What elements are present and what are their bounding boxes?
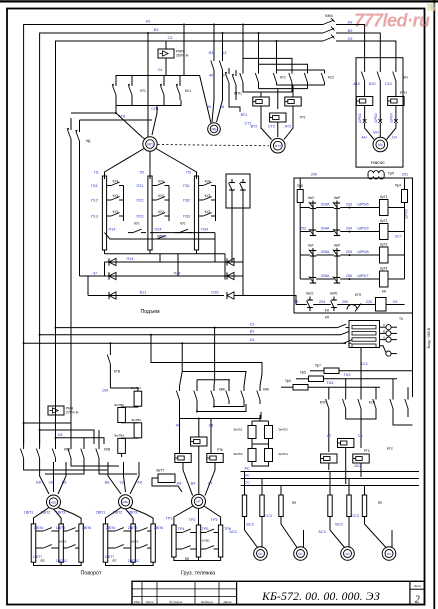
svg-text:ВС: ВС xyxy=(244,474,249,478)
svg-text:В3: В3 xyxy=(209,51,214,55)
svg-text:С8: С8 xyxy=(58,433,63,437)
svg-text:КУ3: КУ3 xyxy=(205,194,211,198)
svg-text:Пр8: Пр8 xyxy=(297,184,303,188)
svg-text:В3: В3 xyxy=(250,330,255,334)
svg-text:С10: С10 xyxy=(385,82,392,86)
svg-text:КуГ3: КуГ3 xyxy=(380,243,387,247)
contact КУ3 П3 xyxy=(199,199,203,201)
svg-text:А7: А7 xyxy=(327,434,332,438)
brake res drop 5 xyxy=(348,479,350,496)
contact MV a xyxy=(213,57,215,61)
wire KT1 top bus xyxy=(116,76,211,124)
svg-text:Пр6: Пр6 xyxy=(285,379,291,383)
wire MT3 drop C xyxy=(276,41,278,70)
svg-text:РТК: РТК xyxy=(217,448,223,452)
connector RTN-A xyxy=(356,97,372,106)
wire grid right2 xyxy=(105,253,226,255)
transformer TrP xyxy=(368,171,384,174)
wire MT3 conv xyxy=(261,106,272,140)
wire conn drop xyxy=(198,419,200,438)
wire left verticals to row xyxy=(23,423,25,444)
svg-text:ВТ2: ВТ2 xyxy=(251,125,258,129)
connector RTS a xyxy=(321,454,337,463)
pin circle C xyxy=(380,339,387,341)
contact KSS b xyxy=(392,394,394,400)
contact KNK c xyxy=(259,386,261,391)
wire br bus1 xyxy=(241,471,419,473)
brake res drop 3 xyxy=(280,486,282,496)
svg-text:ТР5: ТР5 xyxy=(202,527,209,531)
diode D3 xyxy=(109,292,116,299)
svg-text:П34: П34 xyxy=(201,228,208,232)
svg-text:Поворот: Поворот xyxy=(80,571,102,577)
wire KTV feed xyxy=(109,343,111,350)
mech link dashed xyxy=(158,145,270,146)
svg-text:МС: МС xyxy=(298,552,302,556)
svg-text:МС: МС xyxy=(387,552,391,556)
svg-text:АС: АС xyxy=(244,467,249,471)
wire C9 xyxy=(336,41,396,62)
wire drop A to bus xyxy=(183,25,185,76)
svg-text:МТ: МТ xyxy=(196,500,200,504)
wire B3 mid xyxy=(40,334,340,336)
svg-text:Лист: Лист xyxy=(145,600,154,604)
coil EmTT xyxy=(158,474,175,483)
brake resistor 4 xyxy=(328,495,332,517)
wire MV tap B xyxy=(222,33,224,57)
wire KTP1 down xyxy=(229,88,240,112)
wire MP rotor P1 xyxy=(105,149,145,180)
connector trolley a xyxy=(175,454,191,463)
wire to plug A xyxy=(364,90,366,97)
pin circle A xyxy=(380,326,387,328)
contact KPS b xyxy=(345,394,347,400)
svg-text:204: 204 xyxy=(319,300,325,304)
svg-text:С4: С4 xyxy=(158,68,163,72)
svg-text:КБ-572. 00. 00. 000. ЭЗ: КБ-572. 00. 00. 000. ЭЗ xyxy=(261,590,380,603)
wire plugA down xyxy=(364,106,366,122)
svg-text:КУ3: КУ3 xyxy=(158,194,164,198)
wire EmTT xyxy=(152,478,182,492)
svg-text:М4: М4 xyxy=(378,143,383,147)
wire to plug B xyxy=(379,90,381,121)
contact MV b xyxy=(222,57,224,61)
wire MP rotor P2 xyxy=(149,152,151,180)
relay RMP xyxy=(165,41,167,49)
contact KP b xyxy=(339,334,342,336)
svg-text:ВС3: ВС3 xyxy=(246,523,253,527)
svg-text:П21: П21 xyxy=(137,184,144,188)
svg-text:ЭмТК1: ЭмТК1 xyxy=(233,428,243,432)
wire MV2 conv xyxy=(108,462,121,494)
contact trolley r2 xyxy=(201,532,206,534)
contact KTP1 a xyxy=(228,68,230,74)
svg-text:КвП: КвП xyxy=(334,244,341,248)
svg-text:КСС: КСС xyxy=(369,401,376,405)
wire tap3 xyxy=(56,438,105,444)
wire trolley buses xyxy=(151,335,262,386)
contact KN pole C10 xyxy=(395,62,397,72)
svg-text:Вход ~380 В: Вход ~380 В xyxy=(427,327,431,348)
svg-text:П24: П24 xyxy=(174,271,181,275)
contact KNK b xyxy=(243,386,245,391)
svg-text:КТ1: КТ1 xyxy=(140,89,146,93)
svg-text:С8: С8 xyxy=(120,481,125,485)
svg-text:МТ3: МТ3 xyxy=(275,144,281,148)
fuse Pr4 xyxy=(402,190,408,203)
svg-text:Изм: Изм xyxy=(133,600,141,604)
contact КУ2 П3 xyxy=(199,215,203,217)
svg-text:ВС3: ВС3 xyxy=(335,523,342,527)
svg-text:А3: А3 xyxy=(222,51,227,55)
wire MT rotor xyxy=(174,506,193,525)
breaker VM4 pole C xyxy=(323,37,334,42)
motor MT xyxy=(192,494,206,508)
wire MT conv b xyxy=(198,446,200,494)
wire TK3 xyxy=(361,371,413,397)
wire C3 mid xyxy=(56,327,335,329)
contact KN pole B10 xyxy=(379,62,381,72)
svg-text:2ВП1: 2ВП1 xyxy=(96,511,106,515)
relay block KvT/KvP -> KuG3/KuG4 xyxy=(300,254,310,256)
wire KPS out xyxy=(328,413,330,452)
svg-text:205: 205 xyxy=(346,250,352,254)
svg-text:R9: R9 xyxy=(292,501,296,505)
wire slew cross xyxy=(24,462,108,470)
svg-text:ТрП: ТрП xyxy=(388,171,395,175)
scan artifact xyxy=(427,3,436,11)
coil EmTV2 xyxy=(118,408,126,423)
contact KC2 b xyxy=(307,70,309,74)
svg-text:2: 2 xyxy=(415,595,420,606)
svg-text:КвС1: КвС1 xyxy=(306,292,314,296)
svg-text:ТР2: ТР2 xyxy=(189,518,196,522)
relay RMV xyxy=(48,406,64,415)
svg-text:П35: П35 xyxy=(160,235,167,239)
wire diode line3 xyxy=(88,295,224,297)
motor M4 xyxy=(373,137,388,152)
svg-text:КУ1: КУ1 xyxy=(134,222,140,226)
wire diode left xyxy=(87,276,89,296)
svg-text:КУ2: КУ2 xyxy=(205,210,211,214)
contact КУ3 П1 xyxy=(107,199,111,201)
svg-text:ШР5/8: ШР5/8 xyxy=(357,250,368,254)
contact KU1 c xyxy=(152,238,157,240)
wire tap1 xyxy=(24,422,71,424)
svg-text:СС: СС xyxy=(244,481,250,485)
svg-text:А10: А10 xyxy=(353,82,360,86)
svg-text:АС2: АС2 xyxy=(354,464,361,468)
svg-text:1С3: 1С3 xyxy=(361,362,368,366)
svg-text:В4: В4 xyxy=(191,481,196,485)
wire trolley res bottom xyxy=(174,557,221,561)
svg-text:40: 40 xyxy=(209,74,213,78)
pin x B xyxy=(379,119,383,123)
contact KN pole A10 xyxy=(364,62,366,72)
pin x C xyxy=(394,119,398,123)
svg-text:КПВ: КПВ xyxy=(64,447,70,451)
svg-text:ЭмТВ2: ЭмТВ2 xyxy=(114,403,124,407)
coil EmTK3 xyxy=(265,426,273,439)
contact slew 5 xyxy=(83,444,85,449)
svg-text:МС: МС xyxy=(258,552,262,556)
svg-text:ЭмТК2: ЭмТК2 xyxy=(233,452,243,456)
wire bus C3 xyxy=(56,41,324,444)
svg-text:ШР5/5: ШР5/5 xyxy=(405,209,409,219)
motor MV1 xyxy=(47,495,61,509)
contact trolley r1 xyxy=(176,532,182,534)
svg-text:СН: СН xyxy=(392,136,398,140)
relay KTN row xyxy=(296,304,307,306)
contact KSS c xyxy=(407,394,409,400)
wire MT3 drop A xyxy=(242,25,244,71)
connector ST2 xyxy=(270,113,286,122)
svg-text:П33: П33 xyxy=(183,215,190,219)
svg-text:АН: АН xyxy=(361,136,367,140)
contact КУ4 П3 xyxy=(199,185,203,187)
svg-text:R9: R9 xyxy=(378,501,382,505)
svg-text:КвП1: КвП1 xyxy=(330,292,338,296)
wire MT conv xyxy=(183,463,193,496)
svg-text:ВМ4: ВМ4 xyxy=(325,14,332,18)
contact slew 2 xyxy=(39,444,41,449)
brake resistor 5 xyxy=(347,495,351,517)
wire panel right links xyxy=(404,208,406,280)
svg-text:ШР5/6: ШР5/6 xyxy=(357,203,368,207)
svg-text:П32: П32 xyxy=(183,199,190,203)
svg-text:КвР: КвР xyxy=(334,196,341,200)
svg-text:А9: А9 xyxy=(294,300,299,304)
svg-text:1ВП1: 1ВП1 xyxy=(24,511,34,515)
svg-text:СТ2: СТ2 xyxy=(268,125,275,129)
wire MT3 drop B xyxy=(258,33,260,70)
svg-text:КУ4: КУ4 xyxy=(158,180,164,184)
svg-text:В10: В10 xyxy=(369,82,376,86)
svg-text:КУВ2: КУВ2 xyxy=(131,540,139,544)
connector trolley top xyxy=(191,437,207,446)
svg-text:П3: П3 xyxy=(186,171,191,175)
svg-text:КП: КП xyxy=(325,315,330,319)
wire plugC down xyxy=(395,106,397,122)
title block grid xyxy=(132,581,425,604)
svg-text:ЭмТК3: ЭмТК3 xyxy=(278,428,288,432)
contact KNK a xyxy=(228,386,230,391)
svg-text:2ВП6: 2ВП6 xyxy=(154,526,164,530)
trolley resistor 1 xyxy=(172,525,176,557)
coil EmTV3 xyxy=(134,423,142,438)
breaker VM4 pole B xyxy=(323,29,334,34)
svg-text:С9: С9 xyxy=(358,434,363,438)
svg-text:ТР1: ТР1 xyxy=(166,516,173,520)
svg-text:СС3: СС3 xyxy=(351,514,359,518)
wire SP1 xyxy=(152,106,157,136)
svg-text:С8: С8 xyxy=(49,481,54,485)
svg-text:КУ4: КУ4 xyxy=(205,180,211,184)
fuse Pr5 xyxy=(309,376,324,382)
svg-text:С9: С9 xyxy=(393,300,398,304)
svg-text:ВТ1: ВТ1 xyxy=(241,113,248,117)
page edge top xyxy=(0,0,438,2)
contact КУ2 П2 xyxy=(152,215,156,217)
svg-text:СП1: СП1 xyxy=(151,107,159,111)
contact КУ4 П2 xyxy=(152,185,156,187)
svg-text:206: 206 xyxy=(346,274,352,278)
svg-text:Пр5: Пр5 xyxy=(300,370,306,374)
wire KD top2 xyxy=(80,119,153,121)
svg-text:2ВП4: 2ВП4 xyxy=(106,526,116,530)
svg-text:КУ4: КУ4 xyxy=(113,180,119,184)
panel box xyxy=(294,178,413,313)
brake resistor 2 xyxy=(260,495,264,517)
wire brake links xyxy=(245,517,258,548)
svg-text:1ВП5: 1ВП5 xyxy=(56,526,66,530)
svg-text:КуГ2: КуГ2 xyxy=(380,219,387,223)
coil EmTK1 xyxy=(248,426,256,439)
contact KVK c xyxy=(213,386,215,391)
wire grid bus1 xyxy=(105,233,216,239)
fuse Pr6 xyxy=(293,385,308,391)
page edge right xyxy=(433,0,435,609)
connector RTS mid xyxy=(338,439,354,448)
svg-text:ШР5/7: ШР5/7 xyxy=(357,274,368,278)
svg-text:203А: 203А xyxy=(321,203,330,207)
svg-text:204: 204 xyxy=(346,227,352,231)
svg-text:КУВ1: КУВ1 xyxy=(202,539,210,543)
svg-text:1ВП6: 1ВП6 xyxy=(82,526,92,530)
svg-text:Насос: Насос xyxy=(371,160,385,166)
contact KP c xyxy=(344,342,347,344)
svg-text:ШР6/4: ШР6/4 xyxy=(390,113,394,123)
wire tap2 xyxy=(40,430,94,444)
svg-text:КУ2: КУ2 xyxy=(113,210,119,214)
svg-text:В9: В9 xyxy=(348,29,353,33)
svg-text:Подпись: Подпись xyxy=(200,600,214,604)
fuse Pr8 xyxy=(297,190,303,203)
contact КУ3 П2 xyxy=(152,199,156,201)
dot KD1 xyxy=(115,112,117,114)
trolley resistor 2 xyxy=(196,525,200,557)
wire to plug C xyxy=(395,90,397,97)
wire A5 down xyxy=(179,419,181,454)
coil EmTV4 xyxy=(118,438,126,453)
svg-text:270% Iн: 270% Iн xyxy=(66,411,79,415)
dot MT3 B xyxy=(258,32,260,34)
contact KU1 b xyxy=(175,232,180,234)
svg-text:А3: А3 xyxy=(146,19,151,23)
svg-text:АТ2: АТ2 xyxy=(285,125,292,129)
contact KC1 b xyxy=(179,80,181,86)
svg-text:ЭмТК4: ЭмТК4 xyxy=(278,452,288,456)
svg-text:МВ2: МВ2 xyxy=(123,500,129,504)
svg-text:2С7: 2С7 xyxy=(395,235,402,239)
contact KC2 a xyxy=(291,70,293,74)
svg-text:КУ2: КУ2 xyxy=(158,210,164,214)
dot MV tap A xyxy=(213,24,215,26)
brake machine МС2 xyxy=(294,547,308,561)
contact KT2 b xyxy=(258,70,260,74)
diode D1 xyxy=(109,258,116,265)
contact KT2 a xyxy=(242,70,244,74)
svg-text:204А: 204А xyxy=(321,227,330,231)
svg-text:ВН: ВН xyxy=(373,131,379,135)
motor MV xyxy=(208,123,221,136)
svg-text:П14: П14 xyxy=(109,228,116,232)
svg-text:777led·ru: 777led·ru xyxy=(354,11,430,31)
contact КУ4 П1 xyxy=(107,185,111,187)
svg-text:КД: КД xyxy=(86,139,91,143)
contact KT1 b xyxy=(131,80,133,86)
svg-text:П11: П11 xyxy=(91,184,98,188)
svg-text:П23: П23 xyxy=(137,215,144,219)
svg-text:R7: R7 xyxy=(112,559,116,563)
svg-text:47: 47 xyxy=(93,271,97,275)
connector AT2 xyxy=(285,97,301,106)
connector RTN-C xyxy=(388,97,404,106)
wire MT conv c xyxy=(205,463,215,496)
wire C4 xyxy=(165,58,167,76)
svg-text:РТ1: РТ1 xyxy=(300,116,306,120)
svg-text:Пр7: Пр7 xyxy=(315,363,321,367)
svg-text:КС1: КС1 xyxy=(185,89,191,93)
svg-text:ЭмТТ: ЭмТТ xyxy=(156,469,164,473)
wire grid right1 xyxy=(214,233,216,263)
contact KC2 c xyxy=(324,70,326,74)
svg-text:РТН: РТН xyxy=(400,91,407,95)
wire MP stator in xyxy=(142,137,145,139)
svg-text:П1: П1 xyxy=(94,171,99,175)
wire KPS feed xyxy=(328,387,330,394)
wire B9 xyxy=(336,33,380,62)
contact KT2 c xyxy=(276,70,278,74)
wire A3 mid xyxy=(24,342,346,344)
connector VT2 xyxy=(253,97,269,106)
coil EmTV1 xyxy=(134,391,142,406)
svg-text:КВК: КВК xyxy=(219,387,225,391)
svg-text:СТ1: СТ1 xyxy=(244,122,251,126)
svg-text:КТВ: КТВ xyxy=(114,370,121,374)
svg-text:В11: В11 xyxy=(140,290,146,294)
svg-text:КТ2: КТ2 xyxy=(280,76,286,80)
svg-text:РТС: РТС xyxy=(387,447,394,451)
svg-text:201: 201 xyxy=(402,172,408,176)
trolley resistor 3 xyxy=(218,525,222,557)
connector trolley b xyxy=(207,454,223,463)
wire EmTV chain xyxy=(110,388,137,391)
contact slew 3 xyxy=(55,444,57,449)
pin x A xyxy=(363,119,367,123)
relay block KvZ/KvR -> KuG1/KuG2 xyxy=(300,207,310,209)
dot MT3 A xyxy=(242,24,244,26)
svg-text:С: С xyxy=(383,323,385,327)
svg-text:МВ1: МВ1 xyxy=(51,500,57,504)
svg-text:С3: С3 xyxy=(168,36,173,40)
svg-text:В3: В3 xyxy=(154,28,159,32)
svg-text:ТР3: ТР3 xyxy=(211,518,218,522)
svg-text:КС2: КС2 xyxy=(328,76,334,80)
svg-text:КУ3: КУ3 xyxy=(113,194,119,198)
contact KPS c xyxy=(360,394,362,400)
svg-text:КвТ: КвТ xyxy=(308,244,314,248)
wire br bus2 xyxy=(241,478,419,480)
contact slew 6 xyxy=(98,444,100,449)
svg-text:ШР6/2: ШР6/2 xyxy=(374,113,378,123)
svg-text:КвЗ: КвЗ xyxy=(308,196,314,200)
svg-text:КН: КН xyxy=(382,290,387,294)
svg-text:АС3: АС3 xyxy=(318,530,325,534)
svg-text:А8: А8 xyxy=(62,481,67,485)
wire KT2 bus xyxy=(243,91,292,93)
wire MT3 jumpers xyxy=(243,58,292,70)
